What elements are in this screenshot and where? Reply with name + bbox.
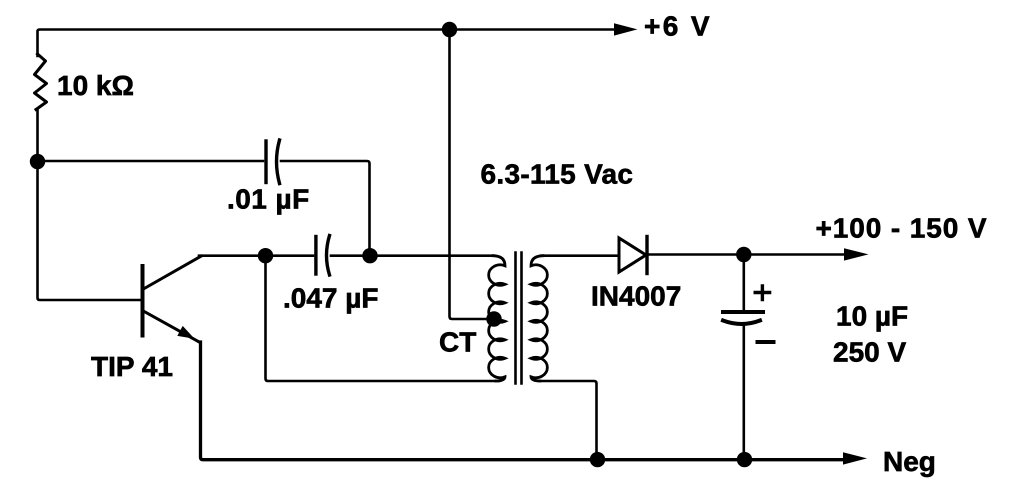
arrow +100-150V (844, 248, 869, 260)
svg-text:TIP 41: TIP 41 (91, 351, 173, 382)
svg-text:250 V: 250 V (833, 337, 906, 368)
transformer T1 primary winding (489, 256, 505, 381)
node B junction collector/C2/primary-bottom branch (258, 248, 273, 263)
node F junction bottom rail / secondary (590, 452, 605, 467)
wire secondary top to diode (541, 254, 618, 257)
node C junction (362, 248, 377, 263)
wire collector horizontal to transformer primary (199, 254, 494, 257)
wire capacitor C3 bottom to bottom rail (742, 324, 745, 457)
transformer T1 secondary winding (531, 256, 547, 381)
capacitor C2 .047 uF (316, 236, 330, 276)
wire secondary bottom down to bottom rail (539, 381, 597, 456)
label + polarity (755, 286, 769, 300)
transistor Q1 TIP 41 (143, 256, 202, 342)
wire node B down and right to transformer primary bottom (266, 256, 500, 381)
svg-text:.01 µF: .01 µF (227, 184, 310, 215)
svg-text:10 µF: 10 µF (836, 301, 908, 332)
resistor R1 10 kOhm (35, 54, 47, 110)
wire capacitor C1 to corner down to node C (281, 161, 370, 252)
wire left vertical below resistor down to base corner (38, 109, 142, 300)
label - polarity (758, 340, 774, 344)
svg-text:CT: CT (439, 327, 476, 358)
node CT center tap junction (486, 311, 501, 326)
wire node A to capacitor C1 (44, 160, 263, 163)
wire CT feed from +6V rail down to center tap (450, 30, 491, 320)
capacitor C3 10uF 250V electrolytic (723, 312, 763, 324)
svg-text:.047 µF: .047 µF (283, 283, 379, 314)
svg-text:Neg: Neg (883, 446, 936, 477)
capacitor C1 .01 uF (266, 140, 280, 184)
arrow Neg (843, 452, 867, 464)
diode D1 IN4007 (619, 237, 647, 274)
transformer T1 core (516, 253, 522, 384)
node A junction resistor/cap/base (30, 154, 45, 169)
arrow +6V (614, 23, 638, 35)
wire node E down to capacitor C3 (742, 255, 745, 311)
svg-text:IN4007: IN4007 (591, 281, 681, 312)
svg-text:10 kΩ: 10 kΩ (57, 70, 134, 101)
svg-text:+100 - 150 V: +100 - 150 V (816, 213, 988, 244)
wire emitter down to bottom rail and to Neg arrow (201, 342, 846, 460)
wire diode cathode to +100-150V arrow (647, 253, 846, 256)
wire top rail from top-left corner to +6V arrow (38, 30, 618, 57)
node G junction bottom rail / C3 (737, 452, 752, 467)
node junction of +6V rail and CT feed (442, 22, 457, 37)
svg-text:6.3-115 Vac: 6.3-115 Vac (481, 159, 634, 190)
svg-text:+6 V: +6 V (644, 11, 712, 42)
node E junction diode output / C3 (736, 247, 751, 262)
